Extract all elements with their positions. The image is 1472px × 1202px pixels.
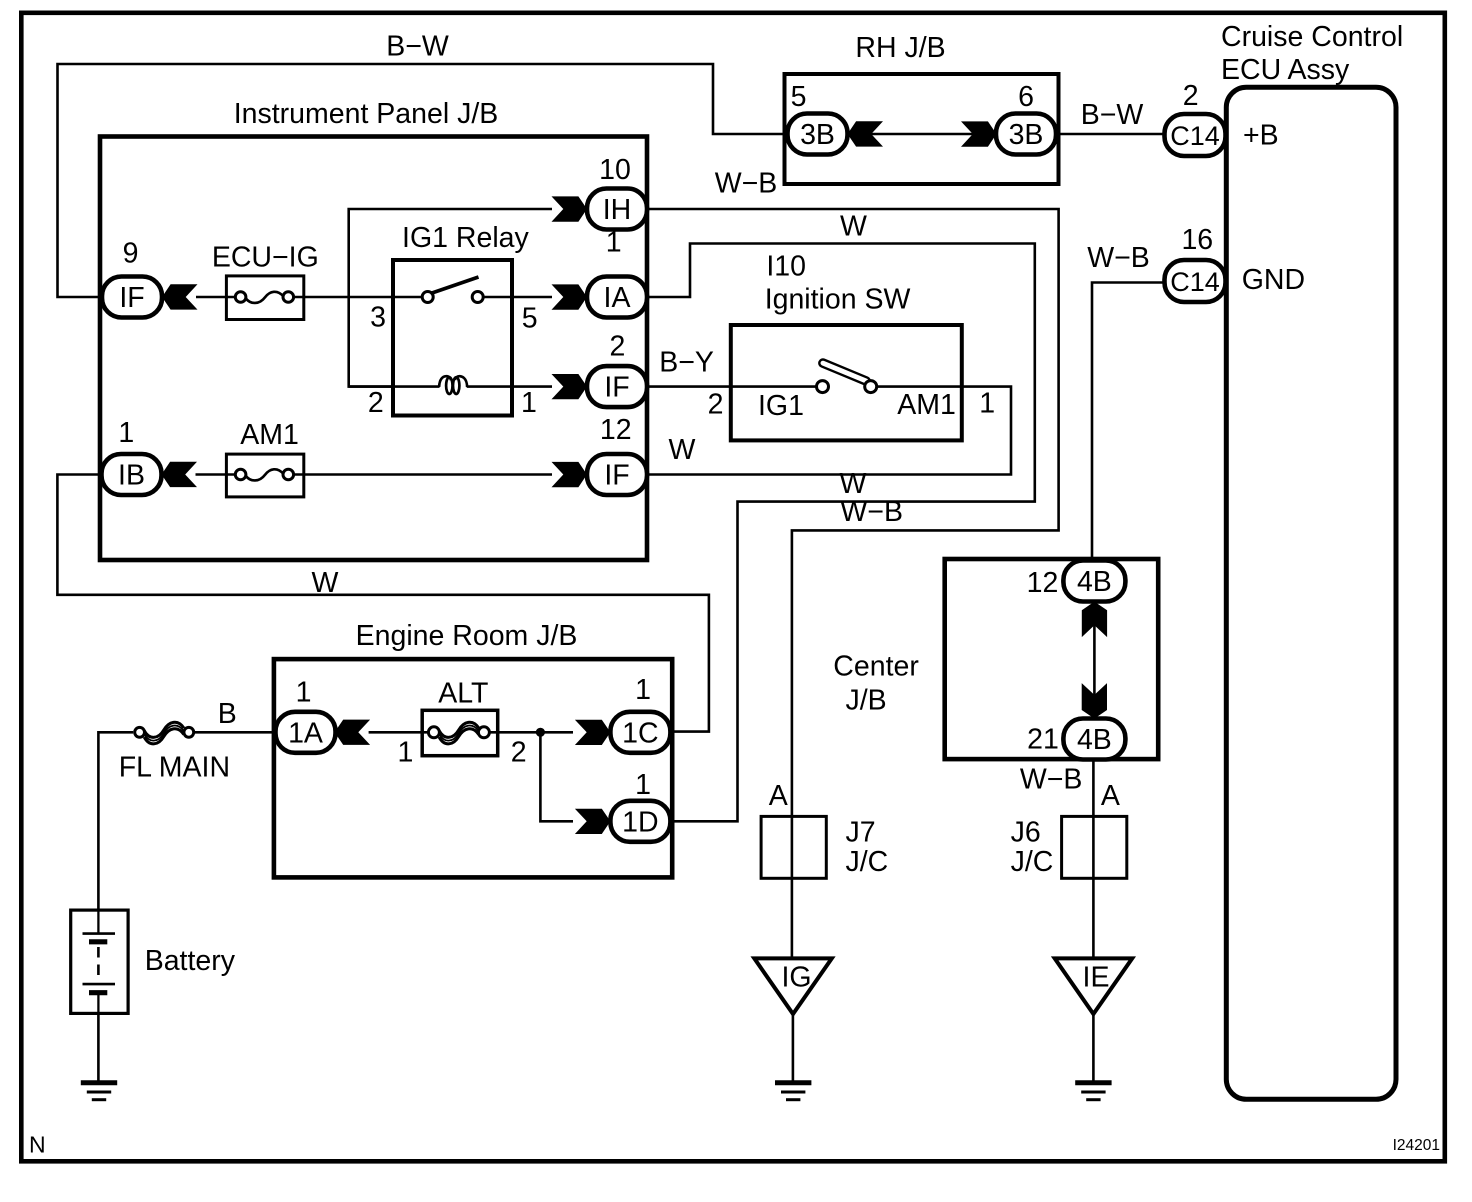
arrow into IF(2): [552, 374, 588, 399]
AM1 fuse box: [226, 454, 303, 497]
svg-text:J/C: J/C: [1011, 846, 1054, 878]
arrow into 3B(6): [961, 121, 997, 146]
svg-text:FL MAIN: FL MAIN: [119, 752, 230, 784]
wire from IG1 relay coil pin2 up to IH arrow: [349, 209, 552, 387]
connector oval 3B pin6: [996, 114, 1056, 155]
arrow into IB: [162, 462, 198, 487]
IG1 relay contact pin3-pin5: [422, 277, 483, 303]
wire IE triangle to ground: [1092, 1014, 1095, 1081]
junction node at ALT pin2: [536, 728, 545, 737]
wire relay coil to IF(2) arrow: [349, 385, 552, 388]
arrow into 4B(21): [1082, 683, 1107, 719]
svg-text:I24201: I24201: [1393, 1137, 1440, 1154]
arrow into 1D: [575, 809, 611, 834]
svg-text:3B: 3B: [1009, 119, 1044, 151]
svg-text:W−B: W−B: [1087, 242, 1150, 274]
svg-text:Instrument Panel J/B: Instrument Panel J/B: [234, 98, 499, 130]
svg-text:4B: 4B: [1077, 566, 1112, 598]
svg-text:1: 1: [979, 387, 995, 419]
connector oval 1C pin1: [610, 712, 670, 753]
svg-text:16: 16: [1181, 224, 1213, 256]
svg-text:1: 1: [521, 387, 537, 419]
ignition switch contacts IG1 / AM1: [817, 358, 877, 392]
svg-text:A: A: [769, 780, 788, 812]
svg-text:W−B: W−B: [1020, 764, 1083, 796]
connector oval IH pin10: [587, 189, 647, 230]
wire B-Y from IF(2) to ignition switch IG1 contact: [647, 385, 817, 388]
svg-text:IF: IF: [604, 460, 629, 492]
Engine Room J/B box: [274, 659, 672, 877]
connector oval IA pin1: [587, 277, 647, 318]
svg-text:10: 10: [599, 154, 631, 186]
wire B-W from IF(9) up over to RH J/B 3B(5): [58, 64, 791, 297]
svg-text:IF: IF: [604, 372, 629, 404]
svg-text:1: 1: [635, 769, 651, 801]
svg-text:C14: C14: [1170, 121, 1220, 151]
svg-text:W−B: W−B: [840, 496, 903, 528]
FL MAIN fusible link symbol: [135, 722, 194, 744]
svg-text:IG: IG: [781, 962, 811, 994]
svg-text:IB: IB: [118, 460, 145, 492]
connector oval IF pin12: [587, 454, 647, 495]
svg-text:3B: 3B: [800, 119, 835, 151]
AM1 fuse symbol: [235, 469, 293, 480]
svg-text:2: 2: [708, 388, 724, 420]
svg-text:IG1: IG1: [758, 390, 804, 422]
svg-text:Ignition SW: Ignition SW: [765, 284, 911, 316]
IG ground triangle: [754, 958, 832, 1014]
svg-text:GND: GND: [1242, 264, 1305, 296]
J7 J/C box: [761, 816, 826, 878]
svg-text:J6: J6: [1011, 817, 1041, 849]
svg-text:9: 9: [123, 238, 139, 270]
svg-text:2: 2: [368, 387, 384, 419]
svg-text:1: 1: [118, 417, 134, 449]
svg-text:IE: IE: [1083, 962, 1110, 994]
svg-text:IG1 Relay: IG1 Relay: [402, 222, 529, 254]
svg-text:B−W: B−W: [386, 31, 449, 63]
Instrument Panel J/B box: [100, 137, 647, 561]
Center J/B box: [945, 559, 1158, 759]
svg-text:ALT: ALT: [438, 678, 488, 710]
svg-text:Battery: Battery: [145, 945, 236, 977]
wire B-W from 3B(6) to C14 pin2: [1054, 133, 1166, 136]
connector oval 4B pin21: [1063, 719, 1125, 760]
svg-text:ECU−IG: ECU−IG: [212, 242, 319, 274]
ALT fusible link symbol: [428, 722, 489, 744]
svg-text:B−Y: B−Y: [659, 347, 714, 379]
wire inside RH J/B between 3B arrows: [847, 133, 997, 136]
svg-text:5: 5: [791, 81, 807, 113]
IE ground triangle: [1055, 958, 1133, 1014]
svg-text:1C: 1C: [622, 717, 658, 749]
Cruise Control ECU Assy box: [1226, 87, 1396, 1099]
svg-text:1A: 1A: [288, 717, 323, 749]
svg-text:1: 1: [635, 674, 651, 706]
svg-text:W−B: W−B: [715, 168, 778, 200]
arrow into 4B(12): [1082, 602, 1107, 638]
wire IG triangle to ground: [792, 1014, 795, 1081]
wire inside Center J/B between 4B arrows: [1093, 602, 1096, 719]
svg-text:Engine Room J/B: Engine Room J/B: [356, 620, 578, 652]
wire from ignition switch AM1 pin1 to IF(12): [647, 387, 1011, 475]
arrow into 1A: [335, 720, 371, 745]
wire relay contact pin5 to IA arrow: [483, 296, 552, 299]
arrow into IA: [552, 284, 588, 309]
wire W-B from IH to J7 J/C and IG triangle: [647, 209, 1059, 958]
svg-text:W: W: [840, 211, 867, 243]
wire battery minus to ground: [97, 1013, 100, 1081]
wire W from IB to Engine Room 1C: [57, 475, 709, 732]
svg-text:1: 1: [606, 227, 622, 259]
arrow into IF(12): [552, 462, 588, 487]
ground below IG triangle: [775, 1083, 811, 1100]
ECU-IG fuse symbol: [235, 292, 293, 303]
wire ALT fuse to junction to 1C arrow: [489, 731, 573, 734]
svg-text:RH J/B: RH J/B: [855, 32, 945, 64]
svg-text:IF: IF: [119, 282, 144, 314]
svg-text:21: 21: [1027, 724, 1059, 756]
wire ECU-IG fuse row to relay contact pin3: [196, 296, 422, 299]
battery symbol plates: [83, 910, 116, 1013]
svg-text:1: 1: [397, 736, 413, 768]
svg-text:12: 12: [1027, 567, 1059, 599]
IG1 relay coil: [439, 376, 467, 394]
wire junction branch down to 1D arrow: [540, 732, 573, 821]
svg-text:J7: J7: [846, 817, 876, 849]
svg-text:W: W: [312, 567, 339, 599]
svg-text:2: 2: [1183, 80, 1199, 112]
connector oval 1A pin1: [276, 712, 336, 753]
svg-text:AM1: AM1: [897, 389, 956, 421]
ECU-IG fuse box: [226, 276, 303, 320]
svg-text:I10: I10: [766, 251, 806, 283]
svg-text:2: 2: [609, 330, 625, 362]
svg-text:Cruise Control: Cruise Control: [1221, 21, 1403, 53]
I10 Ignition SW box: [731, 325, 962, 440]
svg-text:5: 5: [522, 302, 538, 334]
connector oval IF pin9: [102, 277, 162, 318]
arrow into IF(9): [162, 284, 198, 309]
svg-text:ECU Assy: ECU Assy: [1221, 54, 1350, 86]
wire W from IA to Engine Room 1D: [647, 244, 1035, 822]
svg-text:1: 1: [296, 677, 312, 709]
wire AM1 fuse row IB to IF(12) arrow: [196, 473, 553, 476]
arrow into 3B(5): [848, 121, 884, 146]
wire 1A arrow to ALT fuse: [369, 731, 429, 734]
svg-text:2: 2: [511, 736, 527, 768]
svg-text:12: 12: [600, 414, 632, 446]
ground below battery: [81, 1083, 117, 1100]
svg-text:IA: IA: [604, 282, 631, 314]
IG1 Relay box: [393, 260, 512, 416]
svg-text:IH: IH: [603, 194, 632, 226]
svg-text:6: 6: [1018, 81, 1034, 113]
svg-text:C14: C14: [1170, 267, 1220, 297]
RH J/B box: [785, 74, 1059, 184]
connector oval C14 pin16: [1165, 260, 1226, 302]
svg-text:N: N: [29, 1132, 46, 1158]
svg-text:J/B: J/B: [846, 685, 887, 717]
arrow into IH: [552, 196, 588, 221]
connector oval C14 pin2: [1165, 114, 1226, 156]
connector oval 1D pin1: [610, 801, 670, 842]
connector oval 4B pin12: [1063, 561, 1125, 602]
svg-text:Center: Center: [833, 650, 919, 682]
svg-text:J/C: J/C: [846, 846, 889, 878]
J6 J/C box: [1062, 816, 1127, 878]
connector oval IF pin2: [587, 366, 647, 407]
svg-text:AM1: AM1: [240, 419, 299, 451]
wire W-B from C14 pin16 down to Center J/B 4B(12): [1092, 283, 1166, 562]
svg-text:B−W: B−W: [1081, 99, 1144, 131]
svg-text:4B: 4B: [1077, 724, 1112, 756]
Battery box: [71, 910, 128, 1013]
connector oval 3B pin5: [788, 114, 848, 155]
connector oval IB pin1: [102, 454, 162, 495]
svg-text:+B: +B: [1243, 120, 1279, 152]
svg-text:A: A: [1101, 780, 1120, 812]
svg-text:3: 3: [370, 302, 386, 334]
ground below IE triangle: [1075, 1083, 1111, 1100]
wire W-B from 4B(21) through J6 J/C to IE triangle: [1092, 759, 1095, 958]
svg-text:W: W: [669, 434, 696, 466]
svg-text:1D: 1D: [622, 806, 658, 838]
arrow into 1C: [575, 720, 611, 745]
svg-text:B: B: [218, 698, 237, 730]
ALT fusible link box: [422, 710, 498, 755]
wire battery to FL MAIN to 1A: [98, 732, 277, 910]
